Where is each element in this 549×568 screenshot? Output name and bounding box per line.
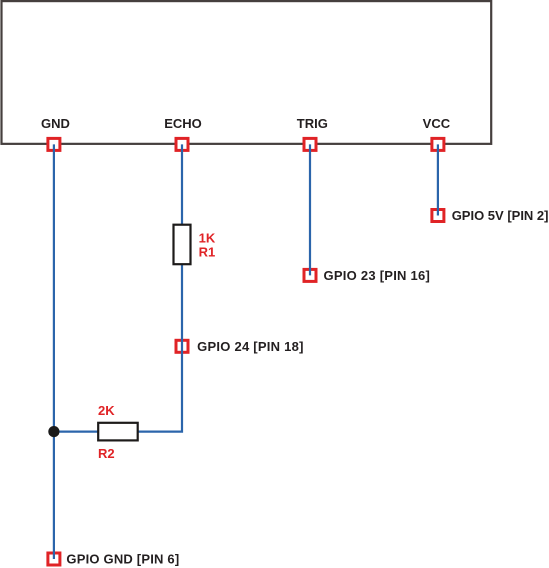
ultrasonic sensor module body	[2, 1, 492, 144]
net label GPIO 23 [PIN 16]	[324, 268, 431, 283]
designator label R1	[199, 245, 216, 260]
pin label TRIG	[297, 116, 328, 131]
wire TRIG (module TRIG pin down to GPIO 23 pad)	[309, 144, 311, 275]
pin label VCC	[423, 116, 451, 131]
svg-text:2K: 2K	[98, 403, 115, 418]
wire GND (module GND pin down to GPIO GND pad)	[53, 144, 55, 559]
net label GPIO 24 [PIN 18]	[197, 339, 304, 354]
terminal pad GPIO 23 endpoint	[304, 269, 316, 281]
wire VCC (module VCC pin down to GPIO 5V pad)	[437, 144, 439, 215]
designator label R2	[98, 446, 115, 461]
terminal pad VCC (module pin)	[432, 138, 444, 150]
svg-text:TRIG: TRIG	[297, 116, 328, 131]
pin label ECHO	[164, 116, 202, 131]
svg-text:GPIO 24 [PIN 18]: GPIO 24 [PIN 18]	[197, 339, 304, 354]
value label 2K (R2)	[98, 403, 115, 418]
wire ECHO (module ECHO pin down through R1, GPIO 24 node, then left through R2 to junction)	[54, 144, 182, 431]
net label GPIO 5V [PIN 2]	[452, 208, 549, 223]
svg-text:R2: R2	[98, 446, 115, 461]
svg-text:VCC: VCC	[423, 116, 451, 131]
svg-text:GND: GND	[41, 116, 70, 131]
junction node (GND wire / R2 junction dot)	[48, 426, 59, 437]
terminal pad TRIG (module pin)	[304, 138, 316, 150]
terminal pad GPIO 5V endpoint	[432, 210, 444, 222]
resistor R2 body (2K, horizontal between junction and GPIO 24 wire)	[98, 423, 138, 441]
terminal pad GND (module pin)	[48, 138, 60, 150]
svg-text:ECHO: ECHO	[164, 116, 202, 131]
svg-text:R1: R1	[199, 245, 216, 260]
svg-text:GPIO GND [PIN 6]: GPIO GND [PIN 6]	[66, 552, 179, 567]
resistor R1 body (1K, vertical on ECHO wire)	[174, 225, 191, 265]
value label 1K (R1)	[199, 231, 216, 246]
net label GPIO GND [PIN 6]	[66, 552, 179, 567]
terminal pad GPIO 24 (node on ECHO wire)	[176, 340, 188, 352]
svg-text:1K: 1K	[199, 231, 216, 246]
terminal pad ECHO (module pin)	[176, 138, 188, 150]
terminal pad GPIO GND endpoint	[48, 553, 60, 565]
pin label GND	[41, 116, 70, 131]
svg-text:GPIO 5V [PIN 2]: GPIO 5V [PIN 2]	[452, 208, 549, 223]
svg-text:GPIO 23 [PIN 16]: GPIO 23 [PIN 16]	[324, 268, 431, 283]
